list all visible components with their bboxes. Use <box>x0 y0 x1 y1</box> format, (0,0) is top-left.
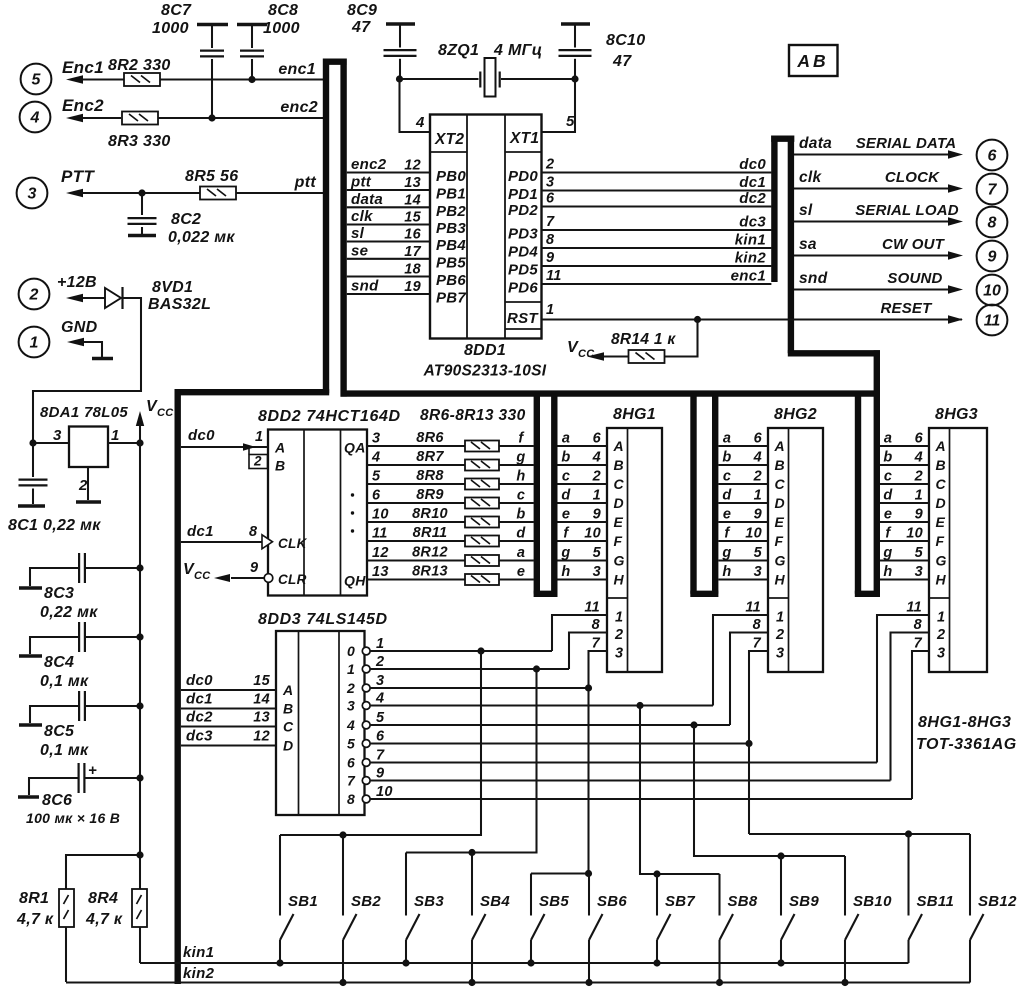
svg-text:12: 12 <box>404 158 421 174</box>
svg-text:9: 9 <box>546 250 554 266</box>
svg-text:11: 11 <box>745 600 761 616</box>
svg-text:3: 3 <box>937 646 945 662</box>
capacitor C7 (8C7 1000) <box>197 23 228 26</box>
svg-text:8R6: 8R6 <box>416 430 444 446</box>
svg-text:a: a <box>884 431 892 447</box>
connector pin 8 <box>977 207 1008 238</box>
svg-text:10: 10 <box>584 526 601 542</box>
svg-text:1: 1 <box>937 610 945 626</box>
svg-text:GND: GND <box>61 319 98 336</box>
svg-text:snd: snd <box>799 270 828 287</box>
svg-text:3: 3 <box>376 673 384 689</box>
wire DD3 out6 <box>370 761 877 763</box>
wire R1 top to Vcc rail <box>66 855 140 889</box>
svg-text:11: 11 <box>372 526 388 542</box>
svg-text:PD5: PD5 <box>508 262 538 279</box>
svg-text:8R11: 8R11 <box>413 525 448 541</box>
svg-text:8HG1-8HG3: 8HG1-8HG3 <box>918 714 1011 731</box>
bus leg pair 3 foot <box>855 591 880 597</box>
wire HG3 digit3 pin 7 <box>912 651 929 799</box>
display HG3 (8HG3) body <box>929 428 987 672</box>
svg-text:AT90S2313-10SI: AT90S2313-10SI <box>423 363 547 380</box>
svg-text:h: h <box>516 469 525 485</box>
svg-text:dc0: dc0 <box>186 672 213 689</box>
svg-text:dc1: dc1 <box>186 691 213 708</box>
node out5 / HG2 digit3 <box>745 740 752 747</box>
bus right loop top cap <box>771 135 794 141</box>
wire HG3 segment c pin 2 <box>880 483 929 485</box>
svg-text:4: 4 <box>375 691 384 707</box>
wire HG3 segment a pin 6 <box>880 445 929 447</box>
svg-text:8: 8 <box>592 617 601 633</box>
svg-text:7: 7 <box>914 636 923 652</box>
svg-text:PD3: PD3 <box>508 226 538 243</box>
svg-text:0,022 мк: 0,022 мк <box>168 229 235 246</box>
svg-text:CLOCK: CLOCK <box>885 169 940 186</box>
switch SB8 <box>718 874 720 916</box>
bus rail right segment <box>341 390 881 396</box>
bus rail left segment <box>175 389 330 395</box>
node SB7 on kin1 <box>653 959 660 966</box>
resistor R2 (8R2 330) <box>124 73 160 86</box>
svg-text:PB1: PB1 <box>436 186 466 203</box>
svg-text:5: 5 <box>566 113 575 130</box>
svg-text:4: 4 <box>371 450 380 466</box>
node out2 / HG1 digit3 <box>585 684 592 691</box>
connector pin 10 <box>977 275 1008 306</box>
svg-text:PB5: PB5 <box>436 254 466 271</box>
wire PD6 pin 11 net enc1 <box>542 283 772 285</box>
connector pin 7 <box>977 174 1008 205</box>
DD2 CLR bubble <box>264 574 273 583</box>
svg-text:CC: CC <box>157 407 174 419</box>
svg-text:47: 47 <box>612 53 632 70</box>
wire RST pin 1 / RESET net <box>542 318 963 320</box>
wire HG1 segment a pin 6 <box>558 445 608 447</box>
resistor R1 (8R1 4,7k) <box>59 889 74 927</box>
wire PB5 pin 17 net se <box>347 258 430 260</box>
node SB2 tap <box>339 831 346 838</box>
svg-text:6: 6 <box>347 755 355 771</box>
wire HG3 segment e pin 9 <box>880 521 929 523</box>
switch SB3 <box>405 853 407 916</box>
svg-text:PD6: PD6 <box>508 280 538 297</box>
svg-text:dc3: dc3 <box>739 214 766 231</box>
wire PD5 pin 9 net kin2 <box>542 265 772 267</box>
pin 2 regulator ground <box>87 467 89 500</box>
svg-text:D: D <box>936 495 946 511</box>
svg-text:2: 2 <box>78 477 88 494</box>
svg-text:Enc2: Enc2 <box>62 96 104 115</box>
svg-text:b: b <box>516 507 525 523</box>
svg-text:1: 1 <box>376 636 384 652</box>
svg-text:0,1 мк: 0,1 мк <box>40 742 89 759</box>
svg-text:11: 11 <box>584 600 600 616</box>
svg-text:8R3 330: 8R3 330 <box>108 133 171 150</box>
svg-text:D: D <box>614 495 624 511</box>
bus right loop left bar <box>771 136 777 283</box>
node out1 riser <box>533 665 540 672</box>
svg-text:d: d <box>561 488 571 504</box>
svg-text:4: 4 <box>592 450 601 466</box>
node ptt/C2 junction <box>138 189 145 196</box>
svg-text:c: c <box>562 469 570 485</box>
switch SB2 <box>342 835 344 916</box>
DD2 pin B tie box pin 2 <box>249 455 268 469</box>
node SB6 on kin2 <box>585 979 592 986</box>
wire PB4 pin 16 net sl <box>347 240 430 242</box>
bus right loop right bar <box>788 136 794 354</box>
svg-text:enc1: enc1 <box>731 268 766 285</box>
Vcc rail arrow up <box>136 411 144 426</box>
svg-text:17: 17 <box>404 244 421 260</box>
svg-text:B: B <box>936 457 946 473</box>
wire kin2 rail <box>66 981 970 983</box>
svg-text:h: h <box>561 564 570 580</box>
svg-text:SB4: SB4 <box>480 893 510 910</box>
svg-text:8C6: 8C6 <box>42 792 72 809</box>
svg-text:1000: 1000 <box>152 20 189 37</box>
svg-text:8R9: 8R9 <box>416 487 444 503</box>
svg-text:8R2 330: 8R2 330 <box>108 57 171 74</box>
bus left vertical drop <box>174 390 180 985</box>
svg-text:PB6: PB6 <box>436 272 466 289</box>
connector pin 3 <box>17 178 48 209</box>
svg-text:1: 1 <box>615 610 623 626</box>
svg-text:PD0: PD0 <box>508 168 538 185</box>
resistor R5 (8R5 56) <box>200 187 236 200</box>
svg-text:1: 1 <box>347 661 355 677</box>
wire PB3 pin 15 net clk <box>347 223 430 225</box>
svg-text:SERIAL LOAD: SERIAL LOAD <box>855 202 959 219</box>
svg-text:8DD2 74HCT164D: 8DD2 74HCT164D <box>258 408 401 425</box>
wire kin1 rail <box>140 962 909 964</box>
wire PB6 pin 18 <box>347 275 430 277</box>
svg-text:A: A <box>774 438 785 454</box>
wire +12V arrow <box>82 297 105 299</box>
svg-text:E: E <box>775 514 785 530</box>
svg-text:g: g <box>721 545 731 561</box>
wire HG3 segment d pin 1 <box>880 502 929 504</box>
DD3 output 2 bubble pin 3 <box>362 684 370 692</box>
capacitor C1 (8C1 0,22mk) <box>32 443 34 477</box>
wire DD3 out0 <box>370 650 552 652</box>
svg-text:h: h <box>722 564 731 580</box>
svg-text:8R12: 8R12 <box>412 545 448 561</box>
wire DD3 out2 <box>370 687 589 689</box>
wire GND arrow <box>84 342 102 357</box>
wire enc1 to bus <box>160 78 323 80</box>
svg-text:8VD1: 8VD1 <box>152 279 193 296</box>
svg-text:CLR: CLR <box>278 572 307 587</box>
svg-text:2: 2 <box>936 627 945 643</box>
wire Enc2 arrow <box>82 117 121 119</box>
svg-text:data: data <box>351 191 383 208</box>
svg-text:7: 7 <box>376 748 385 764</box>
DD2 CLK wedge <box>262 535 273 549</box>
switch SB12 <box>969 834 971 916</box>
svg-text:8R5 56: 8R5 56 <box>185 168 238 185</box>
wire R8 to segment bus, net h <box>499 483 534 485</box>
wire out1 riser to SB3/SB4 row <box>406 669 537 853</box>
svg-text:kin1: kin1 <box>735 232 766 249</box>
node SB5 on kin1 <box>527 959 534 966</box>
svg-text:b: b <box>883 450 892 466</box>
svg-text:F: F <box>614 533 623 549</box>
svg-text:kin2: kin2 <box>183 965 215 982</box>
svg-text:8DD3 74LS145D: 8DD3 74LS145D <box>258 611 388 628</box>
svg-text:8C10: 8C10 <box>606 32 645 49</box>
wire R11 to segment bus, net d <box>499 540 534 542</box>
svg-text:SERIAL DATA: SERIAL DATA <box>856 135 957 152</box>
svg-text:4: 4 <box>914 450 923 466</box>
resistor R13 (8R13 330) <box>465 574 499 585</box>
wire DD3 out3 <box>370 704 713 706</box>
wire PB2 pin 14 net data <box>347 206 430 208</box>
resistor R8 (8R8 330) <box>465 479 499 490</box>
svg-text:3: 3 <box>372 431 380 447</box>
svg-text:b: b <box>561 450 570 466</box>
svg-text:8: 8 <box>249 524 258 540</box>
svg-text:kin1: kin1 <box>183 944 214 961</box>
svg-text:47: 47 <box>351 19 371 36</box>
regulator DA1 (8DA1 78L05) <box>69 427 108 468</box>
node out3 riser <box>636 702 643 709</box>
svg-text:F: F <box>936 533 945 549</box>
svg-text:9: 9 <box>376 766 384 782</box>
wire PD3 pin 7 net dc3 <box>542 229 772 231</box>
DD3 output 8 bubble pin 10 <box>362 795 370 803</box>
svg-text:SB6: SB6 <box>597 893 627 910</box>
svg-text:c: c <box>884 469 892 485</box>
DD3 output 5 bubble pin 6 <box>362 740 370 748</box>
svg-text:enc2: enc2 <box>351 156 387 173</box>
wire HG1 segment g pin 5 <box>558 559 608 561</box>
svg-text:2: 2 <box>253 454 262 469</box>
svg-text:6: 6 <box>593 431 602 447</box>
wire R7 to segment bus, net g <box>499 464 534 466</box>
node SB9 on kin1 <box>777 959 784 966</box>
wire output RESET continues <box>948 315 963 323</box>
node SB1 on kin1 <box>276 959 283 966</box>
svg-text:CLK: CLK <box>278 536 308 551</box>
svg-text:G: G <box>614 553 625 569</box>
svg-text:PB3: PB3 <box>436 220 466 237</box>
svg-text:5: 5 <box>376 710 385 726</box>
node SB4 tap <box>468 849 475 856</box>
wire R9 to segment bus, net c <box>499 502 534 504</box>
svg-text:dc3: dc3 <box>186 728 213 745</box>
resistor R4 (8R4 4,7k) <box>132 889 147 927</box>
connector pin 5 <box>21 64 52 95</box>
svg-text:XT2: XT2 <box>434 131 464 148</box>
svg-text:B: B <box>275 458 285 474</box>
wire HG1 segment c pin 2 <box>558 483 608 485</box>
svg-text:d: d <box>516 526 526 542</box>
svg-text:PD4: PD4 <box>508 244 538 261</box>
svg-text:14: 14 <box>404 192 421 208</box>
wire PB7 pin 19 net snd <box>347 293 430 295</box>
svg-text:11: 11 <box>546 268 562 284</box>
svg-text:A: A <box>282 682 293 698</box>
svg-text:PB0: PB0 <box>436 168 466 185</box>
svg-text:2: 2 <box>346 680 355 696</box>
svg-text:15: 15 <box>253 673 270 689</box>
svg-text:3: 3 <box>28 186 37 203</box>
svg-text:enc1: enc1 <box>278 61 316 78</box>
svg-text:15: 15 <box>404 210 421 226</box>
svg-text:CC: CC <box>194 570 211 582</box>
svg-text:3: 3 <box>53 427 62 444</box>
svg-text:7: 7 <box>592 636 601 652</box>
svg-text:3: 3 <box>347 698 355 714</box>
DD3 output 7 bubble pin 9 <box>362 777 370 785</box>
capacitor C10 (8C10 47) <box>561 22 590 25</box>
wire out5 row to SB11/SB12 <box>749 833 970 835</box>
connector pin 2 <box>19 279 50 310</box>
wire crystal right lead <box>501 78 575 80</box>
wire DD3 out5 <box>370 742 749 744</box>
svg-text:dc0: dc0 <box>188 427 215 444</box>
wire HG2 segment g pin 5 <box>719 559 769 561</box>
wire enc2 to bus <box>158 117 323 119</box>
svg-text:1: 1 <box>754 488 762 504</box>
wire Vcc to DD2 CLR pin 9 <box>231 577 264 579</box>
svg-text:4: 4 <box>346 717 355 733</box>
svg-text:RESET: RESET <box>880 300 933 317</box>
svg-text:8R4: 8R4 <box>88 890 118 907</box>
wire DD2 QD pin 6 <box>367 502 465 504</box>
svg-text:8DD1: 8DD1 <box>464 342 506 359</box>
wire HG3 segment g pin 5 <box>880 559 929 561</box>
wire DD3 out7 <box>370 779 891 781</box>
svg-text:Enc1: Enc1 <box>62 58 104 77</box>
wire R4 bottom to kin1 <box>139 927 141 963</box>
wire dc1 to DD3 pin 14 <box>181 707 276 709</box>
wire DD2 QF pin 11 <box>367 540 465 542</box>
resistor R10 (8R10 330) <box>465 517 499 528</box>
svg-text:3: 3 <box>593 564 601 580</box>
svg-text:9: 9 <box>915 507 923 523</box>
svg-text:C: C <box>283 719 294 735</box>
wire HG1 digit3 pin 7 <box>589 651 608 874</box>
svg-text:12: 12 <box>253 729 270 745</box>
svg-text:sl: sl <box>799 202 813 219</box>
wire output snd / SOUND <box>794 288 948 290</box>
wire PD1 pin 3 net dc1 <box>542 189 772 191</box>
svg-text:1000: 1000 <box>263 20 300 37</box>
wire ptt to bus <box>236 192 323 194</box>
svg-text:A: A <box>274 440 285 456</box>
svg-text:1: 1 <box>776 610 784 626</box>
svg-text:se: se <box>351 242 368 259</box>
svg-text:clk: clk <box>799 169 823 186</box>
svg-text:0,22 мк: 0,22 мк <box>40 604 98 621</box>
node out0 riser <box>477 647 484 654</box>
wire dc3 to DD3 pin 12 <box>181 744 276 746</box>
resistor R12 (8R12 330) <box>465 555 499 566</box>
wire R13 to segment bus, net e <box>499 578 534 580</box>
wire HG1 digit2 pin 8 <box>569 633 607 670</box>
svg-text:g: g <box>560 545 570 561</box>
switch SB5 <box>530 874 532 916</box>
svg-text:B: B <box>614 457 624 473</box>
svg-text:3: 3 <box>615 646 623 662</box>
svg-text:a: a <box>517 545 525 561</box>
svg-text:10: 10 <box>906 526 923 542</box>
node enc1/C8 junction <box>248 76 255 83</box>
wire R12 to segment bus, net a <box>499 559 534 561</box>
resistor R11 (8R11 330) <box>465 536 499 547</box>
wire +12V to regulator <box>33 298 141 443</box>
capacitor C2 (8C2 0,022mk) <box>141 193 143 215</box>
wire HG2 segment e pin 9 <box>719 521 769 523</box>
svg-text:CW OUT: CW OUT <box>882 236 946 253</box>
wire HG3 digit1 pin 11 <box>877 615 929 763</box>
capacitor C6 (8C6 100mk) <box>77 763 79 793</box>
wire output clk / CLOCK <box>794 187 948 189</box>
display HG1 (8HG1) body <box>607 428 662 672</box>
wire dc2 to DD3 pin 13 <box>181 725 276 727</box>
svg-text:7: 7 <box>546 214 555 230</box>
bus left loop right bar <box>340 59 346 397</box>
svg-text:10: 10 <box>745 526 762 542</box>
svg-text:E: E <box>614 514 624 530</box>
wire HG2 segment c pin 2 <box>719 483 769 485</box>
sheet label box AB <box>789 45 838 76</box>
bus leg pair 1 right <box>551 394 557 594</box>
wire regulator output to Vcc rail <box>108 442 140 444</box>
node SB3 on kin1 <box>402 959 409 966</box>
switch SB9 <box>780 856 782 916</box>
svg-text:8: 8 <box>914 617 923 633</box>
wire regulator input <box>33 442 69 444</box>
wire HG2 segment d pin 1 <box>719 502 769 504</box>
svg-text:F: F <box>775 533 784 549</box>
svg-text:12: 12 <box>372 545 389 561</box>
svg-text:11: 11 <box>906 600 922 616</box>
svg-text:3: 3 <box>776 646 784 662</box>
connector pin 4 <box>20 102 51 133</box>
svg-text:5: 5 <box>754 545 763 561</box>
svg-text:6: 6 <box>988 148 997 165</box>
wire dc0 to DD3 pin 15 <box>181 689 276 691</box>
svg-text:4,7 к: 4,7 к <box>16 911 54 928</box>
DD3 output 3 bubble pin 4 <box>362 702 370 710</box>
wire HG2 segment a pin 6 <box>719 445 769 447</box>
crystal ZQ1 (8ZQ1 4MHz) <box>479 72 481 88</box>
svg-text:B: B <box>283 701 293 717</box>
svg-text:14: 14 <box>253 692 270 708</box>
connector pin 11 <box>977 305 1008 336</box>
wire HG1 segment h pin 3 <box>558 578 608 580</box>
wire PTT arrow <box>82 192 200 194</box>
svg-text:TOT-3361AG: TOT-3361AG <box>916 736 1017 753</box>
DD3 output 0 bubble pin 1 <box>362 647 370 655</box>
svg-text:A: A <box>935 438 946 454</box>
svg-text:13: 13 <box>372 564 389 580</box>
wire DD2 QA pin 3 <box>367 445 465 447</box>
wire HG3 segment h pin 3 <box>880 578 929 580</box>
wire DD2 QE pin 10 <box>367 521 465 523</box>
svg-text:6: 6 <box>915 431 924 447</box>
svg-text:5: 5 <box>593 545 602 561</box>
svg-text:e: e <box>517 564 525 580</box>
svg-text:G: G <box>775 553 786 569</box>
DD3 output 4 bubble pin 5 <box>362 721 370 729</box>
svg-text:SB3: SB3 <box>414 893 444 910</box>
svg-text:a: a <box>562 431 570 447</box>
